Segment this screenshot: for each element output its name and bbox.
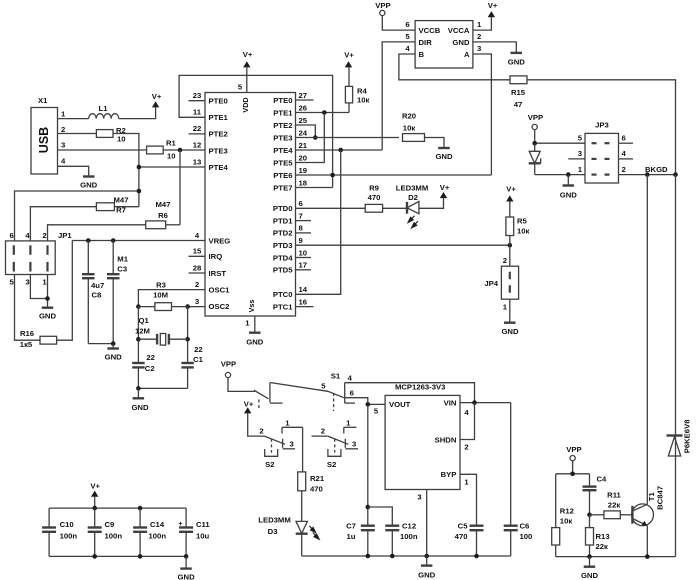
svg-text:S1: S1 [331, 372, 341, 381]
svg-text:OSC1: OSC1 [209, 285, 231, 294]
svg-text:1: 1 [285, 418, 290, 427]
svg-text:BYP: BYP [441, 470, 457, 479]
svg-text:GND: GND [246, 338, 264, 347]
svg-text:4: 4 [464, 408, 469, 417]
resistor R11 [604, 491, 622, 519]
node junction D- branch [137, 189, 142, 194]
svg-text:PTE0: PTE0 [273, 96, 292, 105]
wire OSC2 pin3 [188, 306, 205, 308]
pin stubs left side MCU [189, 101, 206, 273]
wire VOUT down to C7 [367, 404, 369, 525]
svg-text:GND: GND [105, 353, 123, 362]
svg-text:GND: GND [560, 190, 578, 199]
node junction OSC2/R3 [185, 304, 190, 309]
svg-text:C3: C3 [117, 265, 127, 274]
wire ground rail (regulator) [302, 555, 511, 557]
svg-text:GND: GND [581, 571, 599, 580]
svg-text:JP1: JP1 [58, 231, 72, 240]
svg-text:VCCB: VCCB [419, 26, 441, 35]
wire VPP to S1 arm [228, 378, 255, 392]
svg-text:22: 22 [146, 353, 155, 362]
node junction rail R13 [587, 554, 592, 559]
svg-text:9: 9 [299, 236, 303, 245]
svg-text:C12: C12 [402, 522, 416, 531]
connector JP4 [484, 245, 518, 311]
svg-text:3: 3 [417, 493, 421, 502]
pin names left side MCU [209, 97, 231, 312]
svg-text:C6: C6 [520, 522, 530, 531]
svg-text:JP3: JP3 [595, 121, 609, 130]
svg-text:M47: M47 [114, 196, 129, 205]
svg-text:GND: GND [80, 181, 98, 190]
wire S1 pin6 to VOUT node [345, 398, 368, 405]
node junction C14 top [138, 506, 143, 511]
resistor R20 [402, 112, 425, 142]
wire VOUT pin5 stub [368, 403, 385, 405]
svg-text:R16: R16 [20, 329, 34, 338]
svg-text:V+: V+ [488, 1, 498, 10]
node junction VPP/zener [532, 141, 537, 146]
svg-text:R9: R9 [369, 184, 379, 193]
wire L1 to V+ [119, 107, 156, 118]
wire VPP to R12/C4 [556, 461, 590, 474]
svg-text:GND: GND [131, 403, 149, 412]
svg-text:V+: V+ [506, 185, 516, 194]
svg-text:PTE1: PTE1 [209, 113, 229, 122]
svg-text:R3: R3 [156, 281, 166, 290]
svg-text:11: 11 [193, 108, 202, 117]
wire D3 to rail [301, 534, 303, 556]
pin stubs right side MCU [296, 100, 314, 307]
svg-text:R4: R4 [357, 87, 368, 96]
svg-text:PTE3: PTE3 [273, 133, 292, 142]
node junction pin9/R5/JP4 [508, 243, 513, 248]
svg-text:OSC2: OSC2 [209, 302, 230, 311]
node junction C3 ground [111, 341, 116, 346]
crystal Q1 12M [135, 316, 188, 345]
wire OSC1 down to crystal [137, 307, 139, 363]
svg-text:3: 3 [25, 278, 29, 287]
capacitor C12 100n [385, 522, 418, 557]
power V+ (USB VBUS) [152, 92, 162, 107]
ground (regulator) [418, 556, 436, 580]
svg-text:23: 23 [193, 91, 202, 100]
svg-text:21: 21 [299, 141, 308, 150]
node junction VPP bias [570, 472, 575, 477]
svg-text:4: 4 [348, 373, 353, 382]
ground (T1 rail) [581, 557, 599, 580]
capacitor C1 22 [181, 345, 203, 388]
ground (USB shell) [80, 177, 98, 190]
svg-text:C14: C14 [150, 520, 165, 529]
svg-text:5: 5 [374, 406, 379, 415]
ground (JP4) [501, 299, 519, 336]
resistor R3 [138, 281, 187, 311]
wire VPP to VCCB pin6 [382, 16, 415, 31]
svg-text:JP4: JP4 [484, 279, 498, 288]
svg-text:10к: 10к [357, 96, 370, 105]
wire X1 pin4 to ground [58, 166, 89, 176]
svg-text:PTE5: PTE5 [273, 158, 293, 167]
wire R15 to BKGD vertical [527, 80, 676, 175]
resistor R7 M47 [96, 196, 128, 215]
svg-text:R5: R5 [517, 217, 528, 226]
wire ground rail (T1) [556, 556, 676, 558]
svg-text:470: 470 [310, 485, 323, 494]
svg-text:VPP: VPP [566, 445, 581, 454]
svg-text:R1: R1 [166, 139, 177, 148]
wire PTE1 pin11 loop to pin26 [179, 75, 333, 187]
wire JP1-2 to R6 [48, 225, 146, 241]
resistor R5 [506, 217, 530, 246]
node junction 21 row [338, 148, 343, 153]
wire OSC1 pin2 [138, 290, 205, 307]
capacitor C11 10u [178, 508, 210, 556]
svg-text:100: 100 [520, 532, 533, 541]
resistor R12 [552, 474, 574, 557]
ground (decoupling bank) [178, 556, 196, 580]
svg-text:VREG: VREG [209, 236, 231, 245]
wire D- branch to R16 / JP1-6 [15, 191, 139, 241]
svg-text:47: 47 [514, 100, 523, 109]
wire B pin4 to R15 [399, 54, 510, 80]
svg-text:1: 1 [346, 418, 351, 427]
op-amp U2 level translator [405, 20, 482, 68]
resistor R21 [298, 472, 325, 494]
node junction 26 row [322, 110, 327, 115]
wire PTE7 pin18 row [296, 187, 333, 189]
svg-text:D3: D3 [268, 527, 278, 536]
svg-text:10: 10 [167, 152, 176, 161]
svg-text:VIN: VIN [444, 398, 457, 407]
LED D3 LED3MM [258, 516, 319, 540]
svg-text:VPP: VPP [528, 113, 543, 122]
svg-text:USB: USB [37, 127, 51, 153]
svg-text:PTE3: PTE3 [209, 146, 228, 155]
wire ground rail (decoupling) [49, 555, 186, 557]
node junction 19 row [330, 173, 335, 178]
svg-text:4: 4 [61, 156, 66, 165]
wire C2/C1 bottoms join [138, 387, 187, 389]
svg-text:4: 4 [25, 231, 30, 240]
svg-text:V+: V+ [152, 92, 162, 101]
wire V+ rail (decoupling) [49, 507, 186, 509]
wire D2 to V+ [419, 198, 444, 208]
wire C8/C3 bottoms join [88, 343, 113, 345]
wire PTD3 pin9 row to R5/JP4 [296, 244, 510, 246]
svg-text:A: A [464, 50, 470, 59]
svg-text:4: 4 [195, 231, 200, 240]
svg-text:VDD: VDD [241, 97, 250, 112]
connector JP1 [6, 231, 73, 287]
svg-text:C10: C10 [60, 520, 74, 529]
svg-text:X1: X1 [38, 96, 48, 105]
power V+ (VCCA) [488, 1, 498, 17]
svg-text:P6KE6V8: P6KE6V8 [683, 419, 692, 453]
wire net VREG [72, 240, 205, 242]
svg-text:5: 5 [9, 278, 14, 287]
node junction base network [587, 513, 592, 518]
wire R6 to D+ vertical [166, 224, 180, 226]
capacitor C14 100n [133, 508, 166, 556]
svg-text:PTE2: PTE2 [209, 130, 228, 139]
svg-text:GND: GND [435, 152, 453, 161]
resistor R4 [345, 86, 369, 112]
svg-text:PTE2: PTE2 [273, 121, 292, 130]
wire X1 pin1 to L1 [58, 118, 89, 120]
ground (R20) [435, 148, 453, 161]
svg-text:PTE0: PTE0 [209, 97, 228, 106]
capacitor C7 1u [346, 522, 375, 557]
svg-text:IRST: IRST [209, 269, 227, 278]
svg-text:C1: C1 [193, 355, 204, 364]
node junction D- / PTE4 [137, 165, 142, 170]
wire PTD0 pin6 row with R9/D2 [296, 207, 366, 209]
ground (C8/C3) [105, 344, 123, 362]
wire OSC2 down to crystal [187, 307, 189, 363]
svg-text:4u7: 4u7 [91, 281, 104, 290]
svg-text:V+: V+ [90, 481, 100, 490]
svg-text:R21: R21 [310, 474, 325, 483]
capacitor C3 M1 [107, 241, 129, 344]
svg-text:R11: R11 [607, 491, 621, 500]
svg-text:6: 6 [622, 134, 626, 143]
svg-text:C2: C2 [145, 364, 155, 373]
switch S2 (left half) [259, 418, 302, 469]
svg-text:5: 5 [578, 134, 583, 143]
svg-text:10к: 10к [403, 124, 416, 133]
svg-text:7: 7 [299, 211, 303, 220]
capacitor C4 [583, 474, 608, 515]
svg-text:1u: 1u [347, 532, 356, 541]
wire BKGD to T1 collector [646, 175, 648, 505]
svg-text:2: 2 [477, 32, 481, 41]
svg-text:3: 3 [195, 297, 199, 306]
power VPP (T1 bias) [566, 445, 581, 461]
resistor R1 [147, 139, 177, 161]
wire T1 emitter to rail [646, 526, 648, 557]
capacitor C9 100n [88, 508, 123, 556]
diode P6KE6V8 [667, 419, 692, 456]
svg-text:PTD3: PTD3 [273, 241, 293, 250]
wire C12 branch [368, 507, 393, 526]
wire JP1-5 to R16 [15, 275, 41, 341]
wire JP1-4 to R7 [30, 207, 96, 241]
pin numbers right side MCU [299, 91, 308, 307]
svg-text:17: 17 [299, 261, 308, 270]
svg-text:26: 26 [299, 103, 308, 112]
resistor R13 [586, 515, 610, 557]
svg-text:PTE4: PTE4 [273, 146, 293, 155]
wire VIN pin4 node [460, 402, 511, 404]
wire pin24 row to R20 [296, 137, 400, 139]
capacitor C6 100 [504, 522, 533, 557]
node junctions decoupling rail [92, 554, 188, 559]
svg-text:10: 10 [117, 135, 126, 144]
svg-text:GND: GND [418, 571, 436, 580]
svg-text:470: 470 [368, 193, 381, 202]
svg-text:M47: M47 [156, 200, 171, 209]
wire net D+ (R1 to PTE3 pin 12) [163, 149, 205, 151]
svg-text:PTD0: PTD0 [273, 204, 293, 213]
wire pin21 branch down to PTC0 pin14 [296, 150, 341, 294]
wire PTE1 to PTE5 pin20 [296, 113, 325, 163]
svg-text:VOUT: VOUT [389, 400, 411, 409]
svg-text:V+: V+ [244, 399, 254, 408]
svg-text:PTD4: PTD4 [273, 253, 293, 262]
svg-text:22к: 22к [608, 501, 621, 510]
svg-text:C8: C8 [92, 291, 103, 300]
pin names right side MCU [273, 96, 293, 312]
svg-text:1к5: 1к5 [20, 340, 33, 349]
power V+ (VDD pin 5) [238, 50, 253, 113]
svg-text:VPP: VPP [221, 360, 236, 369]
wire DIR pin5 to PTE4 row [382, 42, 415, 150]
resistor R2 [96, 126, 125, 144]
op-amp U? main MCU box [205, 93, 296, 317]
wire X1 pin3 to R1 [58, 149, 147, 151]
wire PTE1/26 row to R4 [296, 112, 350, 114]
wire VIN to C6 [510, 403, 512, 526]
wire JP3 pin2 to BKGD [619, 174, 676, 176]
wire Vss pin1 to ground [245, 300, 256, 333]
wire R20 to ground [425, 138, 445, 149]
wire BYP pin1 to C5 [460, 474, 477, 525]
power V+ (R4) [344, 51, 354, 87]
svg-text:GND: GND [452, 38, 470, 47]
wire R7 to D- vertical [114, 206, 138, 208]
svg-text:470: 470 [455, 532, 468, 541]
svg-text:6: 6 [299, 199, 303, 208]
svg-text:B: B [419, 50, 425, 59]
ground (JP3) [560, 175, 578, 200]
svg-text:R12: R12 [560, 507, 574, 516]
node junction OSC1/R3 [136, 304, 141, 309]
svg-text:PTD5: PTD5 [273, 266, 293, 275]
node junction VREG/C8 [86, 238, 91, 243]
node junction crystal right [185, 337, 190, 342]
svg-text:5: 5 [238, 83, 243, 92]
wire D+ branch down to R6 [179, 150, 181, 225]
svg-text:10к: 10к [560, 517, 573, 526]
svg-text:12M: 12M [135, 326, 150, 335]
svg-text:Q1: Q1 [139, 316, 150, 325]
svg-text:C7: C7 [346, 522, 356, 531]
svg-text:C11: C11 [196, 520, 210, 529]
svg-text:10: 10 [299, 248, 308, 257]
svg-text:13: 13 [193, 157, 202, 166]
node junction rail T1 [645, 554, 650, 559]
svg-text:27: 27 [299, 91, 308, 100]
switch S2 (right half) [312, 418, 359, 469]
resistor R9 [365, 184, 382, 213]
svg-text:1: 1 [477, 20, 482, 29]
svg-text:PTC1: PTC1 [273, 302, 293, 311]
wire VPP to JP3 pin5 [535, 130, 585, 144]
svg-text:100n: 100n [400, 532, 418, 541]
svg-text:PTD1: PTD1 [273, 216, 293, 225]
svg-text:1: 1 [245, 319, 250, 328]
svg-text:S2: S2 [265, 460, 274, 469]
svg-text:PTD2: PTD2 [273, 229, 293, 238]
capacitor C2 22 [132, 353, 155, 388]
svg-text:GND: GND [501, 327, 519, 336]
capacitor C5 470 [455, 522, 484, 557]
svg-text:IRQ: IRQ [209, 252, 223, 261]
switch S1 [254, 372, 355, 411]
svg-text:PTC0: PTC0 [273, 290, 293, 299]
svg-text:1: 1 [503, 303, 508, 312]
wire S1 pin4 to VIN [345, 383, 475, 403]
svg-text:R15: R15 [511, 88, 526, 97]
capacitor C8 4u7 [82, 241, 104, 344]
wire SHDN pin2 to VIN [460, 403, 475, 440]
svg-text:2: 2 [195, 280, 199, 289]
node junction C7/C12 [366, 505, 371, 510]
svg-text:LED3MM: LED3MM [396, 184, 428, 193]
svg-text:V+: V+ [344, 51, 354, 60]
svg-text:2: 2 [622, 165, 626, 174]
capacitor C10 100n [42, 508, 77, 556]
svg-text:M1: M1 [117, 255, 128, 264]
svg-text:LED3MM: LED3MM [258, 516, 290, 525]
svg-text:PTE1: PTE1 [273, 108, 293, 117]
svg-text:10M: 10M [153, 291, 168, 300]
svg-text:14: 14 [299, 285, 308, 294]
node junction JP3 ground [566, 172, 571, 177]
op-amp U3 regulator MCP1263-3V3 [374, 383, 470, 502]
svg-text:100n: 100n [60, 532, 78, 541]
svg-text:6: 6 [9, 231, 13, 240]
wire JP3 pin4 stub [619, 158, 634, 160]
svg-text:R13: R13 [596, 532, 610, 541]
svg-text:19: 19 [299, 166, 308, 175]
svg-text:D2: D2 [408, 193, 418, 202]
svg-text:15: 15 [193, 247, 202, 256]
wire PTE6 pin19 row to translator A [296, 174, 492, 176]
node BKGD [645, 165, 678, 177]
svg-text:PTE6: PTE6 [273, 171, 292, 180]
diode zener (VPP clamp) [529, 143, 541, 174]
svg-text:10к: 10к [517, 227, 530, 236]
wire PTE2 pin25 to pin24 [296, 125, 316, 138]
wire C4/R13 to R11 [590, 514, 604, 516]
svg-text:22: 22 [193, 124, 202, 133]
svg-text:2: 2 [321, 427, 325, 436]
svg-text:1: 1 [464, 477, 469, 486]
svg-text:5: 5 [405, 32, 410, 41]
svg-text:L1: L1 [99, 104, 109, 113]
svg-text:6: 6 [350, 389, 354, 398]
node junction C9 top [92, 506, 97, 511]
svg-text:GND: GND [178, 573, 196, 580]
power VPP (JP3) [528, 113, 543, 129]
wire BKGD down through P6KE6V8 [675, 175, 677, 557]
svg-text:PTE7: PTE7 [273, 183, 292, 192]
svg-text:28: 28 [193, 263, 202, 272]
svg-text:VCCA: VCCA [448, 26, 470, 35]
svg-text:S2: S2 [327, 460, 336, 469]
node junction 24 row [313, 135, 318, 140]
svg-text:4: 4 [622, 149, 627, 158]
svg-text:22: 22 [194, 345, 203, 354]
node junctions on regulator rail [366, 554, 479, 559]
svg-text:5: 5 [321, 381, 326, 390]
svg-text:12: 12 [193, 140, 202, 149]
wire R16 to VREG net [57, 241, 73, 341]
svg-text:1: 1 [61, 110, 66, 119]
node junction crystal left [136, 337, 141, 342]
